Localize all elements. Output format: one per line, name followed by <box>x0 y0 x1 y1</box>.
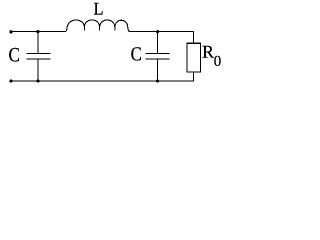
capacitor C1 upper lead <box>37 32 39 54</box>
terminal dot bottom-left <box>9 80 12 83</box>
capacitor C1 lower plate <box>27 58 51 60</box>
node junction dot C2 bottom <box>156 80 159 83</box>
node junction dot C1 top <box>36 30 39 33</box>
node junction dot C2 top <box>156 30 159 33</box>
inductor L <box>66 20 130 32</box>
resistor R0 <box>187 43 201 72</box>
inductor cusp stem 1 <box>83 27 85 31</box>
capacitor C2 lower lead <box>157 60 159 82</box>
capacitor C2 upper plate <box>146 53 170 55</box>
bottom rail wire <box>10 80 194 82</box>
right top vertical wire <box>192 32 194 44</box>
inductor cusp stem 3 <box>114 27 116 31</box>
terminal dot top-left <box>9 30 12 33</box>
capacitor C1 lower lead <box>37 60 39 82</box>
right bottom vertical wire <box>192 72 194 81</box>
top rail left wire <box>10 31 66 33</box>
inductor cusp stem 2 <box>99 27 101 31</box>
label C1 <box>9 48 19 62</box>
capacitor C2 upper lead <box>157 32 159 54</box>
node junction dot C1 bottom <box>36 80 39 83</box>
label C2 <box>131 47 141 60</box>
label R0 <box>203 46 214 58</box>
capacitor C2 lower plate <box>146 58 170 60</box>
label L <box>94 3 103 15</box>
capacitor C1 upper plate <box>27 53 51 55</box>
top rail right wire <box>129 31 194 33</box>
